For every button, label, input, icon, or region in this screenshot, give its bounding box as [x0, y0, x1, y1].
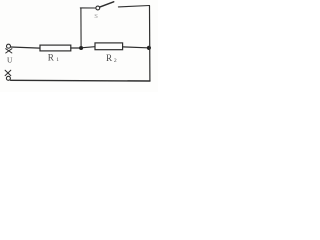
wire: switch branch vertical from node A	[80, 8, 82, 46]
wire: switch branch horizontal to pivot	[80, 7, 96, 9]
resistor R1	[40, 45, 71, 51]
switch S lever (open)	[100, 2, 114, 7]
svg-text:S: S	[94, 13, 98, 20]
node B (junction dot)	[147, 46, 151, 50]
terminal bottom-left (binding post)	[5, 70, 11, 80]
wire: node A to R2	[83, 47, 95, 48]
wire: R1 to node A	[71, 47, 80, 49]
wire: top terminal to R1	[11, 47, 40, 48]
wire: bottom	[11, 79, 150, 82]
wire: R2 to node B	[123, 46, 148, 49]
svg-text:R: R	[48, 53, 55, 63]
resistor R2	[95, 43, 123, 50]
wire: switch to top-right corner	[118, 6, 149, 7]
terminal top-left (binding post)	[6, 44, 12, 53]
node A (junction dot)	[79, 46, 83, 50]
label R1	[48, 53, 60, 63]
svg-text:2: 2	[114, 58, 117, 64]
svg-text:U: U	[7, 55, 13, 64]
label R2	[106, 53, 117, 64]
svg-text:1: 1	[56, 57, 59, 63]
svg-text:R: R	[106, 53, 113, 63]
switch S pivot	[96, 6, 100, 10]
wire: right vertical	[149, 6, 151, 81]
